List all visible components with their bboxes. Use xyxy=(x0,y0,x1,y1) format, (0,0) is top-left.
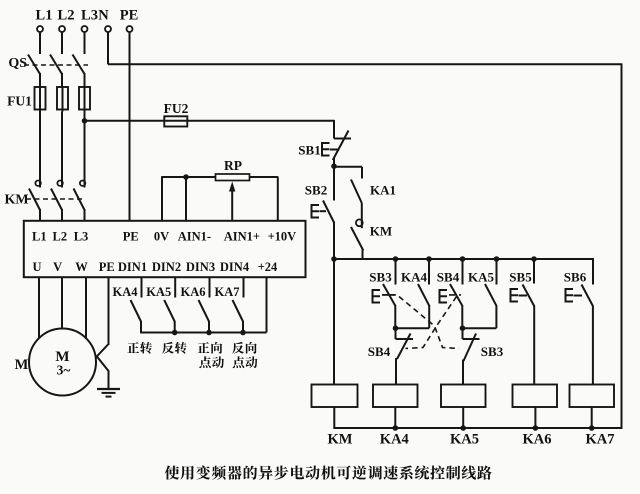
fuse FU2 xyxy=(164,116,187,126)
svg-text:+24: +24 xyxy=(258,260,278,274)
svg-text:FU1: FU1 xyxy=(7,94,32,109)
wire: FU1 to KM contact xyxy=(39,112,41,180)
svg-text:KA5: KA5 xyxy=(450,432,479,448)
svg-text:PE: PE xyxy=(120,8,139,24)
contact KA6 xyxy=(209,277,211,297)
svg-text:SB1: SB1 xyxy=(298,143,320,158)
svg-text:KA1: KA1 xyxy=(370,183,396,198)
svg-text:L2: L2 xyxy=(58,8,75,24)
wire: right return vertical xyxy=(621,63,623,429)
svg-text:SB2: SB2 xyxy=(305,183,327,198)
node L3 supply terminal xyxy=(82,26,88,32)
wire: bottom return bus xyxy=(334,427,622,429)
wire: PE down to inverter xyxy=(129,32,131,221)
wiper arrow AIN1+ xyxy=(231,191,233,221)
node: AIN1- tap xyxy=(183,174,189,180)
contact KA7 xyxy=(243,277,245,297)
node: bus junction xyxy=(460,425,466,431)
coil KA7 xyxy=(570,385,615,408)
node: SB5 bus tap xyxy=(531,256,537,262)
pushbutton SB4 NC interlock xyxy=(395,328,397,339)
svg-text:KA7: KA7 xyxy=(215,285,240,299)
wire: +24 drop xyxy=(266,277,268,332)
switch QS (3-pole disconnect) xyxy=(28,55,40,75)
svg-text:KA4: KA4 xyxy=(380,432,409,448)
svg-text:KA7: KA7 xyxy=(586,432,615,448)
svg-text:KM: KM xyxy=(4,193,28,208)
pushbutton SB3 (fwd) xyxy=(395,259,397,285)
ground symbol xyxy=(97,388,120,390)
svg-text:SB5: SB5 xyxy=(509,270,532,285)
svg-text:L3: L3 xyxy=(81,8,98,24)
svg-text:L3: L3 xyxy=(74,229,89,243)
node: KA4/SB3 merge xyxy=(393,325,399,331)
svg-text:QS: QS xyxy=(8,56,27,71)
svg-text:DIN2: DIN2 xyxy=(152,260,181,274)
wire: AIN1- up xyxy=(185,177,187,221)
wire: 0V up xyxy=(161,177,163,221)
svg-text:RP: RP xyxy=(224,158,242,173)
svg-text:KA4: KA4 xyxy=(113,285,139,299)
svg-text:U: U xyxy=(32,260,41,274)
node: KA5/SB4 merge xyxy=(460,325,466,331)
node: collector junction xyxy=(206,330,212,336)
wire: FU1 to KM contact xyxy=(61,112,63,180)
svg-text:FU2: FU2 xyxy=(164,101,189,116)
fuse FU1 (3x) xyxy=(39,87,41,112)
wire: FU1 to KM contact xyxy=(84,112,86,180)
label: reverse xyxy=(162,342,174,354)
wire: control bus xyxy=(334,258,593,260)
coil KA6 xyxy=(513,385,558,408)
svg-text:KA4: KA4 xyxy=(401,270,428,285)
wire: W to motor xyxy=(85,277,87,339)
svg-text:L2: L2 xyxy=(53,229,68,243)
svg-text:SB3: SB3 xyxy=(481,344,504,359)
contact KA5 (parallel) xyxy=(494,256,500,262)
svg-text:V: V xyxy=(53,260,62,274)
wire: +24 collector xyxy=(141,332,267,334)
svg-text:KM: KM xyxy=(370,224,392,239)
wire to KA1 branch xyxy=(334,166,362,168)
potentiometer RP xyxy=(216,174,250,181)
node below SB1 xyxy=(331,163,337,169)
wire: QS to FU1 xyxy=(84,73,86,87)
svg-text:DIN3: DIN3 xyxy=(186,260,215,274)
KM mech link dashed xyxy=(26,198,85,200)
svg-text:SB4: SB4 xyxy=(437,270,460,285)
svg-text:KA6: KA6 xyxy=(181,285,206,299)
svg-text:L1: L1 xyxy=(36,8,53,24)
svg-text:KA5: KA5 xyxy=(468,270,495,285)
node: collector junction xyxy=(240,330,246,336)
node PE supply terminal xyxy=(127,26,133,32)
wire: QS to FU1 xyxy=(61,73,63,87)
contact KA4 xyxy=(141,277,143,297)
svg-text:PE: PE xyxy=(99,260,115,274)
svg-text:AIN1+: AIN1+ xyxy=(224,229,260,243)
wire: phase drop to QS xyxy=(84,32,86,54)
contact KA5 xyxy=(174,277,176,297)
contact KA4 (parallel) xyxy=(426,256,432,262)
svg-text:SB3: SB3 xyxy=(369,270,392,285)
wire: PE to earth xyxy=(108,277,110,345)
contactor KM main contacts (3x) xyxy=(39,180,41,188)
svg-text:3~: 3~ xyxy=(57,363,71,378)
wire: KM coil feed xyxy=(333,259,335,385)
mech link SB3 dashed xyxy=(382,294,396,296)
contact KA1 (latch) xyxy=(351,180,362,204)
coil KM xyxy=(312,385,358,408)
mech link SB4 dashed xyxy=(449,294,461,296)
node: collector junction xyxy=(172,330,178,336)
node: bus junction xyxy=(589,425,595,431)
svg-text:KM: KM xyxy=(328,432,353,448)
wire: N to control circuit return xyxy=(107,32,109,64)
node: SB3 bus tap xyxy=(393,256,399,262)
pushbutton SB6 (rev jog) xyxy=(592,258,594,284)
svg-text:SB6: SB6 xyxy=(564,270,587,285)
wire: phase drop to QS xyxy=(39,32,41,54)
wire: +10V up xyxy=(250,176,279,178)
wire: QS to FU1 xyxy=(39,73,41,87)
svg-text:N: N xyxy=(98,8,109,24)
motor M 3~ xyxy=(29,329,96,396)
node: SB4 bus tap xyxy=(460,256,466,262)
svg-text:L1: L1 xyxy=(32,229,47,243)
svg-text:DIN1: DIN1 xyxy=(118,260,147,274)
contact KM terminal circle xyxy=(356,219,363,226)
wire: U to motor xyxy=(38,277,40,338)
pushbutton SB2 (start) xyxy=(333,166,335,200)
contact KM (aux) xyxy=(351,227,363,251)
pushbutton SB1 (NC stop) xyxy=(333,120,335,139)
svg-text:DIN4: DIN4 xyxy=(220,260,250,274)
svg-text:PE: PE xyxy=(123,229,139,243)
svg-text:M: M xyxy=(15,357,29,373)
label: forward xyxy=(127,342,139,353)
inverter (VFD) box U1 xyxy=(24,221,306,277)
wire: bus end to SB6 xyxy=(592,258,594,284)
pushbutton SB3 NC interlock xyxy=(462,328,464,339)
svg-text:SB4: SB4 xyxy=(368,344,391,359)
node L2 supply terminal xyxy=(59,26,65,32)
wire: to FU2 xyxy=(85,120,335,122)
svg-text:0V: 0V xyxy=(154,229,169,243)
coil KA5 xyxy=(441,385,486,408)
wire: phase drop to QS xyxy=(61,32,63,54)
svg-text:+10V: +10V xyxy=(268,229,297,243)
label: rev jog xyxy=(232,342,244,354)
node L1 supply terminal xyxy=(37,26,43,32)
svg-text:KA6: KA6 xyxy=(523,432,552,448)
pushbutton SB4 (rev) xyxy=(462,259,464,285)
coil KA4 xyxy=(373,385,418,408)
node: bus junction xyxy=(533,425,539,431)
node: bus junction xyxy=(393,425,399,431)
pushbutton SB5 (fwd jog) xyxy=(533,259,535,284)
wire: V to motor xyxy=(61,277,63,329)
QS mechanical link dashed xyxy=(24,64,88,66)
caption title xyxy=(165,466,180,480)
svg-text:AIN1-: AIN1- xyxy=(178,229,211,243)
node: junction L3/FU2 feed xyxy=(82,118,88,124)
svg-text:KA5: KA5 xyxy=(146,285,171,299)
node N supply terminal xyxy=(105,26,111,32)
label: fwd jog xyxy=(198,342,210,353)
svg-text:W: W xyxy=(75,260,88,274)
